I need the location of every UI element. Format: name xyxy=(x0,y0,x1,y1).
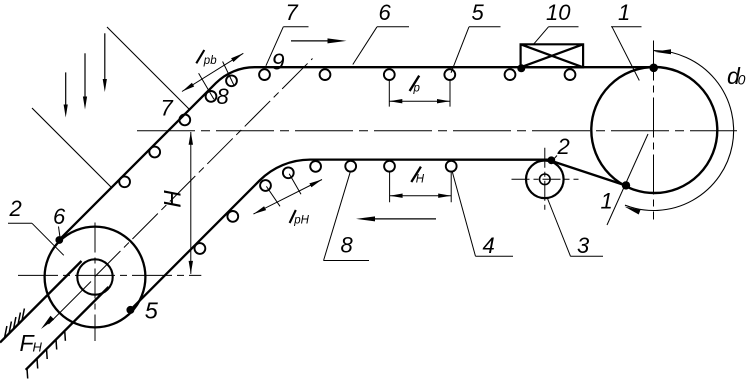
upper incline roller mid xyxy=(149,147,160,158)
arrowhead l_pb upper xyxy=(231,53,243,62)
drive pulley vertical centerline xyxy=(653,41,655,220)
leader label 3 xyxy=(548,199,604,257)
deflector pulley 3 xyxy=(526,161,564,199)
lower incline roller a xyxy=(227,211,238,222)
belt segment from deflector pulley to drive pulley xyxy=(551,161,628,187)
arrowhead chute a3 xyxy=(103,79,107,92)
lower belt run (incline, transition arc, horizontal) xyxy=(130,160,551,310)
leader label 1 top xyxy=(611,27,642,81)
svg-text:1: 1 xyxy=(601,188,613,213)
tail pulley 2 hub xyxy=(77,259,112,294)
wrap angle arc d0 xyxy=(625,51,734,211)
material flow arrow a2 xyxy=(84,53,86,102)
label l_pH xyxy=(290,210,296,223)
upper run roller x450 xyxy=(444,69,455,80)
arrowhead d0 top xyxy=(654,49,671,54)
svg-text:pb: pb xyxy=(203,55,217,67)
svg-text:pH: pH xyxy=(293,215,309,227)
l_p dimension line xyxy=(389,100,450,102)
lower run roller x451 xyxy=(446,161,457,172)
l_pH dimension line xyxy=(254,180,323,215)
arrowhead l_p left xyxy=(389,99,402,103)
svg-text:8: 8 xyxy=(217,84,230,109)
loading chute line A xyxy=(107,27,190,110)
lower curve roller b xyxy=(260,180,271,191)
lower run roller x350 xyxy=(345,161,356,172)
upper run roller x570 xyxy=(565,69,576,80)
arrowhead F_H xyxy=(41,316,54,329)
arrowhead top direction xyxy=(328,38,347,43)
node dot box 10 corner xyxy=(517,64,525,72)
label l_H xyxy=(411,167,421,182)
take-up force F_H line xyxy=(49,282,92,325)
label l_p xyxy=(410,76,420,91)
lower curve roller a xyxy=(283,167,294,178)
label l_pb xyxy=(196,50,204,63)
upper incline roller low xyxy=(119,176,130,187)
arrowhead l_pb lower xyxy=(182,83,194,92)
upper curve roller b xyxy=(206,91,217,102)
node dot drive pulley top xyxy=(649,64,658,73)
arrowhead H top xyxy=(189,132,193,145)
node dot 6 tangent point xyxy=(55,236,63,244)
leader label 6 left xyxy=(59,227,61,238)
leader label 6 top xyxy=(353,27,409,65)
upper incline roller 7 xyxy=(179,115,190,126)
arrowhead lower direction xyxy=(356,216,375,221)
svg-text:8: 8 xyxy=(341,233,354,258)
svg-text:2: 2 xyxy=(557,134,570,159)
take-up rail lower xyxy=(26,287,109,370)
svg-text:H: H xyxy=(160,190,187,208)
leader label 5 top xyxy=(451,27,501,73)
svg-text:0: 0 xyxy=(738,72,746,88)
svg-text:H: H xyxy=(416,173,425,185)
take-up rail upper xyxy=(0,261,82,343)
arrowhead chute a2 xyxy=(83,97,87,110)
incline axis centerline xyxy=(95,59,313,277)
loading chute line B xyxy=(32,108,112,188)
fixed support hatching lower wall xyxy=(27,331,65,379)
svg-text:4: 4 xyxy=(483,233,495,258)
box 10 (drive station) xyxy=(521,44,584,67)
leader label 8 lower xyxy=(323,172,369,261)
belt direction arrow top line xyxy=(291,40,331,42)
lower run roller x389 xyxy=(384,161,395,172)
l_pb dimension line xyxy=(182,53,243,91)
tail pulley horizontal centerline xyxy=(18,274,201,276)
tail pulley 2 outer xyxy=(45,227,146,328)
lower run roller x315 xyxy=(310,161,321,172)
l_p extension lines xyxy=(389,81,450,107)
arrowhead l_p right xyxy=(437,99,450,103)
leader label 2 right xyxy=(552,156,557,162)
upper run roller x264 xyxy=(259,69,270,80)
svg-text:7: 7 xyxy=(286,0,299,25)
svg-text:6: 6 xyxy=(53,204,66,229)
l_H dimension line xyxy=(390,195,452,197)
fixed support hatching upper wall xyxy=(5,309,25,339)
node dot 5 tangent point xyxy=(126,306,134,314)
tail pulley vertical centerline xyxy=(94,223,96,342)
l_pH extension lines xyxy=(266,174,301,207)
svg-text:p: p xyxy=(413,82,421,94)
leader label 10 xyxy=(534,27,579,45)
upper run roller x389 xyxy=(384,69,395,80)
svg-text:10: 10 xyxy=(546,0,571,25)
drive pulley 1 xyxy=(591,67,717,193)
upper run roller x325 xyxy=(320,69,331,80)
arrowhead l_pH lower xyxy=(254,206,267,214)
arrowhead l_H right xyxy=(438,194,451,198)
svg-text:5: 5 xyxy=(472,0,485,25)
l_H extension lines xyxy=(390,173,452,203)
node dot 2 tangent point xyxy=(547,156,555,164)
radius leader label 1 bottom xyxy=(607,134,648,225)
leader label 7 top xyxy=(266,27,309,66)
arrowhead l_H left xyxy=(390,194,403,198)
svg-text:9: 9 xyxy=(272,48,285,74)
upper curve roller a xyxy=(226,75,237,86)
belt direction arrow lower line xyxy=(372,218,436,220)
deflector pulley horizontal centerline xyxy=(512,178,579,180)
main horizontal axis centerline xyxy=(137,130,737,132)
svg-text:H: H xyxy=(33,340,43,355)
leader label 4 xyxy=(452,171,513,256)
svg-text:1: 1 xyxy=(618,0,630,25)
svg-text:2: 2 xyxy=(9,196,22,221)
lower incline roller b xyxy=(195,243,206,254)
arrowhead chute a1 xyxy=(64,105,68,118)
deflector pulley 3 hub xyxy=(540,174,551,185)
arrowhead d0 bottom xyxy=(625,207,641,215)
upper belt run (incline, transition arc, horizontal) xyxy=(59,67,654,240)
l_pb extension lines xyxy=(199,62,234,100)
material flow arrow a1 xyxy=(65,72,67,110)
upper run roller x510 xyxy=(505,69,516,80)
deflector pulley vertical centerline xyxy=(544,148,546,214)
arrowhead l_pH upper xyxy=(309,180,322,188)
leader label 2 left xyxy=(8,223,64,255)
svg-text:6: 6 xyxy=(379,0,392,25)
arrowhead H bottom xyxy=(189,261,193,274)
svg-text:7: 7 xyxy=(161,96,174,121)
node dot drive pulley bottom xyxy=(622,181,630,189)
material flow arrow a3 xyxy=(104,33,106,85)
H dimension line xyxy=(190,132,192,274)
svg-text:3: 3 xyxy=(577,233,590,258)
svg-text:5: 5 xyxy=(145,298,159,324)
